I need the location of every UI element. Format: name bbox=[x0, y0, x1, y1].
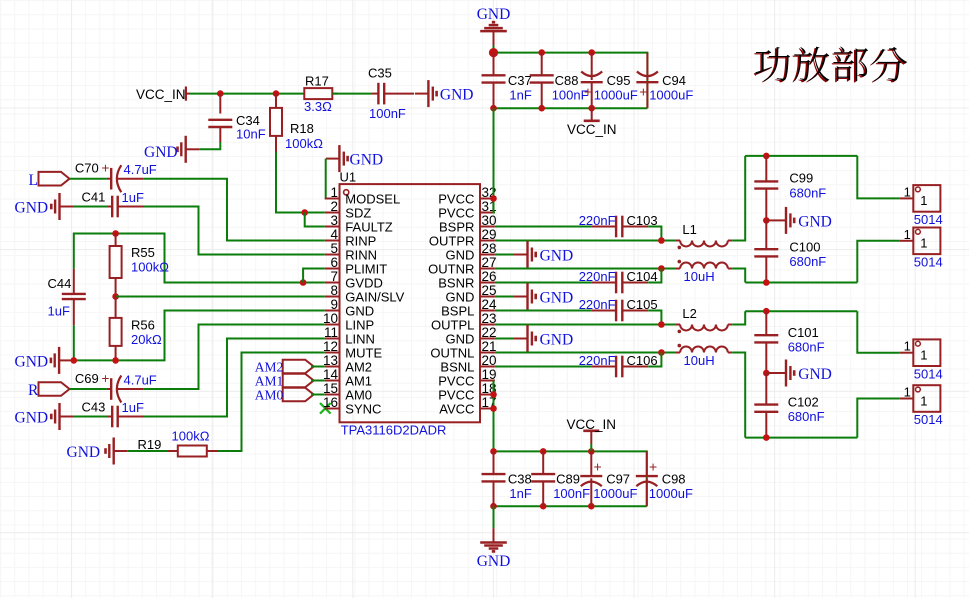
port L (left audio input) bbox=[29, 172, 70, 189]
svg-text:GND: GND bbox=[798, 214, 832, 231]
svg-text:MODSEL: MODSEL bbox=[345, 191, 400, 206]
svg-text:PVCC: PVCC bbox=[438, 191, 474, 206]
wire bank to bottom GND bbox=[493, 506, 495, 528]
svg-text:+: + bbox=[102, 371, 110, 386]
svg-text:AM0: AM0 bbox=[345, 387, 372, 402]
svg-text:10uH: 10uH bbox=[684, 269, 715, 284]
power port VCC_IN (top left) bbox=[136, 87, 190, 103]
svg-text:5: 5 bbox=[330, 241, 338, 256]
svg-text:1: 1 bbox=[920, 393, 927, 408]
svg-text:10nF: 10nF bbox=[236, 127, 266, 142]
svg-text:L2: L2 bbox=[682, 306, 696, 321]
capacitor C94 (polarized) bbox=[636, 53, 693, 109]
power port VCC_IN (above bottom bank) bbox=[567, 417, 617, 451]
svg-text:VCC_IN: VCC_IN bbox=[567, 417, 617, 432]
svg-text:23: 23 bbox=[482, 311, 497, 326]
svg-text:RINP: RINP bbox=[345, 233, 376, 248]
svg-text:7: 7 bbox=[330, 269, 338, 284]
svg-text:20: 20 bbox=[482, 353, 497, 368]
ground GND (R19 row) bbox=[67, 438, 128, 465]
capacitor C102 680nF bbox=[754, 373, 824, 438]
svg-text:1nF: 1nF bbox=[509, 88, 531, 103]
svg-text:680nF: 680nF bbox=[789, 254, 826, 269]
svg-text:C44: C44 bbox=[48, 276, 72, 291]
svg-text:9: 9 bbox=[330, 297, 338, 312]
svg-text:5014: 5014 bbox=[914, 412, 943, 427]
node junction C44/GND rail bbox=[71, 357, 78, 364]
capacitor C99 680nF bbox=[754, 156, 826, 221]
svg-text:5014: 5014 bbox=[914, 212, 943, 227]
svg-text:+: + bbox=[584, 84, 592, 100]
svg-text:L: L bbox=[29, 172, 38, 189]
svg-text:12: 12 bbox=[323, 339, 338, 354]
capacitor C95 (polarized) bbox=[581, 53, 638, 109]
node junction C101 top bbox=[763, 308, 770, 315]
svg-text:GND: GND bbox=[540, 248, 574, 265]
svg-text:U1: U1 bbox=[340, 170, 357, 185]
op-amp U1 TPA3116D2DADR amplifier IC bbox=[323, 170, 497, 438]
svg-text:C88: C88 bbox=[555, 73, 579, 88]
svg-text:1: 1 bbox=[920, 348, 927, 363]
wire PVCC bottom (pins 19-17 to bank) bbox=[493, 381, 495, 452]
svg-text:C35: C35 bbox=[368, 66, 392, 81]
connector P3 (5014) bbox=[900, 339, 943, 382]
svg-text:220nF: 220nF bbox=[579, 213, 616, 228]
svg-text:GAIN/SLV: GAIN/SLV bbox=[345, 289, 404, 304]
svg-text:R: R bbox=[28, 382, 39, 399]
svg-text:100nF: 100nF bbox=[553, 486, 590, 501]
svg-text:1000uF: 1000uF bbox=[649, 486, 693, 501]
inductor L1 winding 1 bbox=[675, 222, 732, 249]
svg-text:C104: C104 bbox=[627, 269, 658, 284]
svg-text:C106: C106 bbox=[627, 353, 658, 368]
wire to pin3 FAULTZ bbox=[305, 213, 325, 227]
svg-text:BSPL: BSPL bbox=[441, 303, 474, 318]
wire R19 to pin12 MUTE bbox=[218, 353, 325, 452]
svg-text:3: 3 bbox=[330, 213, 338, 228]
svg-text:GND: GND bbox=[446, 247, 475, 262]
wire L out bottom rail bbox=[745, 399, 900, 438]
node junction OUTNR/C104 bbox=[658, 265, 665, 272]
svg-text:10: 10 bbox=[323, 311, 338, 326]
svg-text:AM2: AM2 bbox=[345, 359, 372, 374]
node junction C100 bottom bbox=[763, 279, 770, 286]
svg-text:1: 1 bbox=[330, 185, 338, 200]
svg-text:100kΩ: 100kΩ bbox=[285, 136, 323, 151]
node junctions bottom bank bbox=[490, 448, 594, 509]
svg-text:4.7uF: 4.7uF bbox=[124, 162, 157, 177]
svg-text:26: 26 bbox=[482, 269, 497, 284]
svg-text:AM1: AM1 bbox=[255, 374, 284, 389]
svg-text:L1: L1 bbox=[682, 222, 696, 237]
svg-text:680nF: 680nF bbox=[788, 340, 825, 355]
svg-text:BSNR: BSNR bbox=[438, 275, 474, 290]
svg-text:1: 1 bbox=[904, 385, 911, 400]
svg-text:1: 1 bbox=[920, 236, 927, 251]
svg-text:AM0: AM0 bbox=[255, 388, 284, 403]
svg-text:GND: GND bbox=[345, 303, 374, 318]
node junction R55/R56 (GAIN/SLV) bbox=[112, 293, 119, 300]
wire C70 to pin4 RINP bbox=[144, 179, 325, 241]
svg-text:GND: GND bbox=[798, 366, 832, 383]
wire VCC_IN to R17 bbox=[190, 93, 305, 95]
connector P1 (5014) bbox=[900, 184, 943, 227]
svg-text:BSPR: BSPR bbox=[439, 219, 474, 234]
wire GND to C41 bbox=[73, 206, 108, 208]
svg-text:19: 19 bbox=[482, 367, 497, 382]
svg-text:100nF: 100nF bbox=[369, 106, 406, 121]
svg-text:GND: GND bbox=[477, 6, 511, 23]
svg-text:C100: C100 bbox=[789, 240, 820, 255]
svg-text:C89: C89 bbox=[556, 472, 580, 487]
svg-text:15: 15 bbox=[323, 381, 338, 396]
capacitor C69 (polarized 4.7uF) bbox=[75, 371, 157, 403]
node junction OUTPL/C105 bbox=[658, 321, 665, 328]
resistor R56 bbox=[110, 297, 162, 361]
svg-text:AM2: AM2 bbox=[255, 360, 284, 375]
wire AM2 to pin13 bbox=[311, 366, 325, 368]
svg-text:C99: C99 bbox=[789, 171, 813, 186]
svg-text:C97: C97 bbox=[606, 472, 630, 487]
wire R out top rail bbox=[745, 156, 900, 199]
capacitor C100 680nF bbox=[754, 220, 826, 282]
wire GND to R19 bbox=[127, 450, 168, 452]
ground GND (between C101/C102) bbox=[766, 360, 832, 387]
node junction C99 top bbox=[763, 153, 770, 160]
svg-text:30: 30 bbox=[482, 213, 497, 228]
connector P4 (5014) bbox=[900, 385, 943, 428]
wire C34 to GND elbow bbox=[199, 142, 220, 149]
wire L1 w1 to output node bbox=[732, 156, 745, 241]
port AM1 bbox=[255, 374, 314, 389]
capacitor C89 bbox=[531, 451, 590, 506]
svg-text:FAULTZ: FAULTZ bbox=[345, 219, 392, 234]
ground GND (above U1 pin1) bbox=[326, 145, 383, 172]
svg-text:220nF: 220nF bbox=[579, 353, 616, 368]
wire top bank rails bbox=[494, 53, 648, 109]
svg-text:11: 11 bbox=[324, 325, 338, 340]
svg-text:16: 16 bbox=[323, 395, 338, 410]
svg-text:C103: C103 bbox=[627, 213, 658, 228]
capacitor C34 bbox=[208, 94, 265, 142]
svg-text:13: 13 bbox=[323, 353, 338, 368]
svg-text:BSNL: BSNL bbox=[440, 359, 474, 374]
svg-text:220nF: 220nF bbox=[579, 269, 616, 284]
svg-text:VCC_IN: VCC_IN bbox=[567, 122, 617, 137]
capacitor C38 bbox=[482, 451, 532, 506]
svg-text:+: + bbox=[102, 161, 110, 176]
capacitor C104 (bootstrap 220nF) bbox=[495, 269, 662, 294]
port R (right audio input) bbox=[28, 382, 70, 399]
svg-text:28: 28 bbox=[482, 241, 497, 256]
capacitor C101 680nF bbox=[754, 311, 824, 373]
wire C43 to pin11 LINN bbox=[144, 339, 325, 417]
svg-text:C69: C69 bbox=[75, 371, 99, 386]
svg-text:C43: C43 bbox=[82, 400, 106, 415]
svg-text:PVCC: PVCC bbox=[438, 373, 474, 388]
node junction pin32 PVCC bbox=[490, 195, 497, 202]
svg-text:MUTE: MUTE bbox=[345, 345, 382, 360]
capacitor C35 bbox=[368, 66, 414, 122]
capacitor C41 bbox=[82, 190, 145, 218]
svg-text:C98: C98 bbox=[662, 472, 686, 487]
connector P2 (5014) bbox=[900, 227, 943, 270]
wire L1 w2 to output node bbox=[732, 269, 745, 283]
svg-text:100kΩ: 100kΩ bbox=[131, 260, 169, 275]
svg-text:GND: GND bbox=[477, 553, 511, 570]
svg-text:25: 25 bbox=[482, 283, 497, 298]
wire R18 to pin2 SDZ bbox=[276, 152, 325, 213]
svg-text:1: 1 bbox=[904, 184, 911, 199]
capacitor C105 (bootstrap 220nF) bbox=[495, 297, 662, 325]
capacitor C43 bbox=[82, 400, 145, 428]
svg-text:OUTNR: OUTNR bbox=[428, 261, 474, 276]
svg-text:4: 4 bbox=[330, 227, 338, 242]
svg-text:29: 29 bbox=[482, 227, 497, 242]
node junction SDZ/FAULTZ bbox=[301, 209, 308, 216]
capacitor C70 (polarized 4.7uF) bbox=[75, 161, 157, 193]
svg-text:R18: R18 bbox=[290, 121, 314, 136]
inductor L2 winding 1 bbox=[675, 306, 732, 333]
svg-text:C105: C105 bbox=[627, 297, 658, 312]
svg-text:24: 24 bbox=[482, 297, 498, 312]
wire to pin6 PLIMIT bbox=[303, 269, 325, 283]
svg-text:1uF: 1uF bbox=[48, 304, 70, 319]
svg-text:1uF: 1uF bbox=[122, 400, 144, 415]
node junction R55 top bbox=[112, 230, 119, 237]
wire junction to pin8 GAIN/SLV bbox=[116, 296, 325, 298]
svg-text:C95: C95 bbox=[607, 73, 631, 88]
node junction OUTPR/C103 bbox=[658, 237, 665, 244]
ground GND (top, above cap bank) bbox=[477, 6, 511, 53]
wire R out bottom rail bbox=[745, 241, 900, 283]
node junction OUTNL/C106 bbox=[658, 349, 665, 356]
svg-text:GND: GND bbox=[446, 331, 475, 346]
svg-text:8: 8 bbox=[330, 283, 338, 298]
svg-text:C41: C41 bbox=[82, 190, 106, 205]
resistor R18 bbox=[270, 94, 323, 152]
svg-text:PVCC: PVCC bbox=[438, 387, 474, 402]
ground GND (between C99/C100) bbox=[766, 207, 832, 234]
ground GND (bottom) bbox=[477, 528, 511, 570]
svg-text:27: 27 bbox=[482, 255, 497, 270]
capacitor C44 bbox=[48, 269, 86, 325]
svg-text:1: 1 bbox=[904, 339, 911, 354]
svg-text:GND: GND bbox=[446, 289, 475, 304]
svg-text:PVCC: PVCC bbox=[438, 205, 474, 220]
svg-text:C37: C37 bbox=[508, 73, 532, 88]
svg-text:20kΩ: 20kΩ bbox=[131, 332, 162, 347]
ground GND (pin 28) bbox=[495, 241, 573, 268]
capacitor C37 bbox=[482, 53, 532, 109]
svg-text:5014: 5014 bbox=[914, 366, 943, 381]
svg-text:1: 1 bbox=[920, 193, 927, 208]
svg-text:C70: C70 bbox=[75, 161, 99, 176]
wire C69 to pin10 LINP bbox=[144, 325, 325, 390]
wire AM1 to pin14 bbox=[311, 380, 325, 382]
svg-text:PLIMIT: PLIMIT bbox=[345, 261, 387, 276]
node junction C102 bottom bbox=[763, 434, 770, 441]
svg-text:3.3Ω: 3.3Ω bbox=[304, 99, 332, 114]
node junction R56/GND rail bbox=[112, 357, 119, 364]
node junction C101/C102/GND bbox=[763, 370, 770, 377]
svg-text:OUTPL: OUTPL bbox=[431, 317, 474, 332]
svg-text:1nF: 1nF bbox=[509, 486, 531, 501]
svg-text:1uF: 1uF bbox=[122, 190, 144, 205]
port AM0 bbox=[255, 388, 314, 403]
svg-text:C94: C94 bbox=[662, 73, 686, 88]
svg-text:VCC_IN: VCC_IN bbox=[136, 87, 186, 102]
wire GVDD rail (R55 top) bbox=[74, 234, 325, 283]
svg-text:14: 14 bbox=[323, 367, 339, 382]
wire GND to C43 bbox=[73, 416, 108, 418]
wire C44 to GND rail bbox=[73, 325, 75, 360]
svg-text:R56: R56 bbox=[131, 318, 155, 333]
port AM2 bbox=[255, 360, 314, 375]
svg-text:1000uF: 1000uF bbox=[594, 88, 638, 103]
power port VCC_IN (below top bank) bbox=[567, 108, 617, 137]
svg-text:LINN: LINN bbox=[345, 331, 375, 346]
node junctions top bank bbox=[489, 48, 595, 111]
inductor L2 winding 2 bbox=[675, 344, 732, 368]
node junction VCC_IN/C34 bbox=[217, 90, 224, 97]
svg-text:TPA3116D2DADR: TPA3116D2DADR bbox=[341, 423, 447, 438]
svg-text:C102: C102 bbox=[788, 395, 819, 410]
wire L out top rail bbox=[745, 311, 900, 353]
svg-text:10uH: 10uH bbox=[684, 353, 715, 368]
svg-text:GND: GND bbox=[350, 152, 384, 169]
wire OUTPL to L2 bbox=[495, 324, 675, 326]
node junction C99/C100/GND bbox=[763, 217, 770, 224]
wire AM0 to pin15 bbox=[311, 394, 325, 396]
ground GND (right of C35) bbox=[415, 80, 474, 107]
inductor L1 winding 2 bbox=[675, 260, 732, 284]
svg-text:680nF: 680nF bbox=[789, 186, 826, 201]
wire OUTNR to L1 winding 2 bbox=[495, 268, 675, 270]
resistor R55 bbox=[110, 234, 170, 297]
svg-text:GND: GND bbox=[15, 354, 49, 371]
resistor R19 bbox=[138, 429, 219, 457]
wire GND to pin1 MODSEL bbox=[324, 159, 327, 199]
svg-text:GND: GND bbox=[67, 444, 101, 461]
svg-text:C38: C38 bbox=[508, 472, 532, 487]
wire bottom bank rails bbox=[494, 451, 647, 506]
svg-text:R55: R55 bbox=[131, 245, 155, 260]
wire PVCC top (bank to pins 32/31) bbox=[494, 108, 495, 212]
capacitor C88 bbox=[530, 53, 589, 109]
ground GND (pin 22) bbox=[495, 325, 573, 352]
capacitor C103 (bootstrap 220nF) bbox=[495, 213, 662, 241]
svg-text:+: + bbox=[594, 459, 602, 475]
ground GND (below C34) bbox=[144, 136, 199, 163]
wire C41 to pin5 RINN bbox=[144, 207, 325, 255]
svg-text:+: + bbox=[649, 459, 657, 475]
svg-text:C101: C101 bbox=[788, 325, 819, 340]
svg-text:680nF: 680nF bbox=[788, 409, 825, 424]
ground GND (pin 25) bbox=[495, 283, 573, 310]
svg-text:GVDD: GVDD bbox=[345, 275, 383, 290]
title text 功放部分 bbox=[754, 46, 908, 82]
node junction PLIMIT/GVDD bbox=[300, 279, 307, 286]
svg-text:1000uF: 1000uF bbox=[593, 486, 637, 501]
svg-text:1: 1 bbox=[904, 227, 911, 242]
svg-text:OUTPR: OUTPR bbox=[429, 233, 475, 248]
svg-text:LINP: LINP bbox=[345, 317, 374, 332]
ground GND (C43 row) bbox=[15, 403, 74, 430]
wire R to C69 bbox=[70, 388, 107, 390]
svg-text:GND: GND bbox=[144, 144, 178, 161]
svg-text:22: 22 bbox=[482, 325, 497, 340]
svg-text:OUTNL: OUTNL bbox=[430, 345, 474, 360]
node junction VCC_IN/R18 bbox=[273, 90, 280, 97]
svg-text:220nF: 220nF bbox=[579, 297, 616, 312]
svg-text:GND: GND bbox=[540, 332, 574, 349]
svg-text:6: 6 bbox=[330, 255, 338, 270]
wire L2 w2 to output node bbox=[732, 353, 745, 438]
node junction pin18 bbox=[490, 391, 497, 398]
svg-text:GND: GND bbox=[15, 410, 49, 427]
wire L2 w1 to output node bbox=[732, 311, 745, 324]
svg-text:GND: GND bbox=[540, 290, 574, 307]
node junction pin17 bbox=[490, 405, 497, 412]
wire GND rail to pin9 GND bbox=[73, 311, 325, 361]
svg-text:SDZ: SDZ bbox=[345, 205, 371, 220]
svg-text:1000uF: 1000uF bbox=[649, 88, 693, 103]
svg-text:GND: GND bbox=[440, 87, 474, 104]
ground GND (C41 row) bbox=[15, 193, 74, 220]
capacitor C98 (polarized) bbox=[636, 451, 693, 506]
svg-text:2: 2 bbox=[330, 199, 338, 214]
wire R17 to C35 bbox=[332, 93, 372, 95]
svg-text:4.7uF: 4.7uF bbox=[124, 373, 157, 388]
svg-text:GND: GND bbox=[15, 200, 49, 217]
wire OUTNL to L2 winding 2 bbox=[495, 352, 675, 354]
no-connect X on pin16 SYNC bbox=[320, 403, 331, 414]
svg-text:+: + bbox=[639, 84, 647, 100]
capacitor C97 (polarized) bbox=[580, 451, 637, 506]
svg-text:AVCC: AVCC bbox=[439, 401, 474, 416]
svg-text:SYNC: SYNC bbox=[345, 401, 381, 416]
resistor R17 bbox=[304, 74, 338, 115]
wire L to C70 bbox=[70, 178, 107, 180]
capacitor C106 (bootstrap 220nF) bbox=[495, 353, 662, 378]
svg-text:R19: R19 bbox=[138, 437, 162, 452]
svg-text:100kΩ: 100kΩ bbox=[172, 429, 210, 444]
svg-text:5014: 5014 bbox=[914, 254, 943, 269]
svg-text:RINN: RINN bbox=[345, 247, 377, 262]
svg-text:AM1: AM1 bbox=[345, 373, 372, 388]
svg-text:21: 21 bbox=[482, 339, 497, 354]
svg-text:R17: R17 bbox=[305, 74, 329, 89]
ground GND (left rail) bbox=[15, 347, 73, 374]
wire OUTPR to L1 bbox=[495, 240, 675, 242]
